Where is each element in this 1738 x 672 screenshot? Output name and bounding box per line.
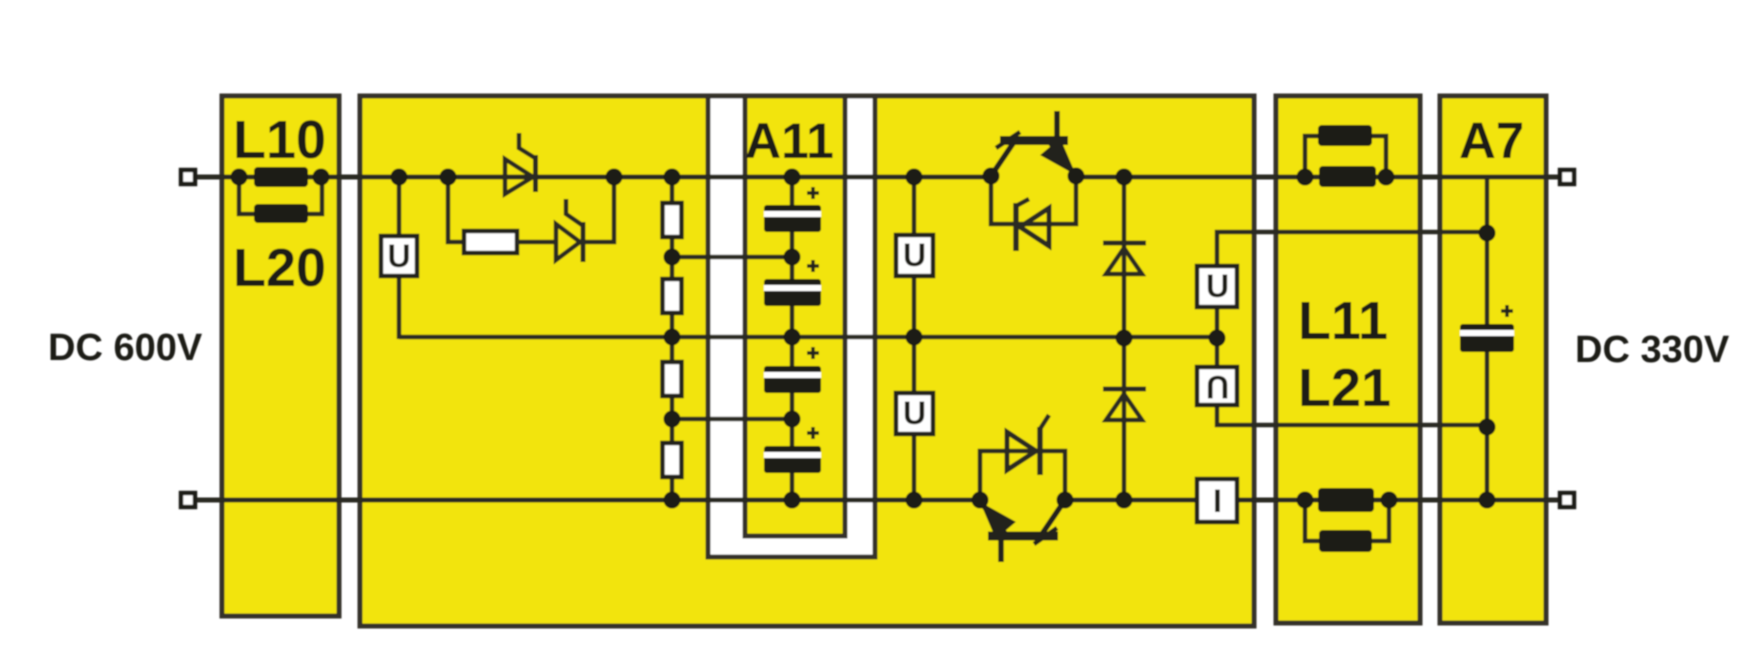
svg-text:DC 600V: DC 600V [48,327,203,369]
node A7 upper tap [1479,225,1496,242]
svg-text:I: I [1213,483,1222,519]
wire snubber branch right [583,177,614,242]
block L11/L21 output filter module [1276,96,1420,623]
node L10 right [313,169,330,186]
node divider bottom [664,492,681,509]
module A11 capacitor bank [745,96,845,536]
diode D2 freewheel lower [1007,415,1049,475]
current sensor I [1197,479,1237,522]
svg-text:L21: L21 [1298,358,1391,418]
voltage sensor U (input) [381,236,417,276]
svg-text:A7: A7 [1459,112,1524,169]
thyristor V2 in snubber branch [556,199,583,262]
node L11 left [1297,169,1314,186]
svg-text:L10: L10 [233,110,326,170]
svg-text:U: U [387,238,410,274]
capacitor C1 [764,187,821,232]
svg-text:L20: L20 [233,238,326,298]
wire row C midpoint bus [399,335,1217,340]
svg-text:L11: L11 [1298,291,1388,351]
wire top rail DC+ (left of IGBT gap) [196,175,991,180]
svg-text:U: U [903,395,926,431]
node L21 right [1381,492,1398,509]
inductor L11 rail bar [1319,166,1376,187]
transistor Q2 (lower GTO) [980,500,1065,562]
wire sense line lower to A7 [1217,402,1487,425]
terminal DC600V + [181,170,195,184]
wire voltage sensor drop [397,177,402,236]
node cap chain row D [784,411,801,428]
voltage sensor U upper half [896,235,933,276]
wire freewheel loop upper [991,176,1076,224]
inductor L21 lower bar [1319,530,1372,552]
terminal DC330V - [1560,493,1574,507]
node L10 left [231,169,248,186]
diode D3 clamp upper [1103,243,1146,274]
capacitor C3 [764,347,821,393]
resistor R4 [663,443,682,477]
wire sense line upper to A7 [1217,232,1487,266]
node L21 left [1297,492,1314,509]
node cap chain row B [784,249,801,266]
wire resistor to thyristor V2 [517,240,556,245]
wire divider chain [670,177,675,500]
node clamp bottom [1116,492,1133,509]
node rail at sensor tap [391,169,408,186]
inductor L20 [254,204,308,223]
wire bottom rail DC- (left of IGBT gap) [196,498,980,503]
resistor R1 [663,203,682,237]
wire L20 parallel loop [239,177,254,214]
node sensor column top [906,169,923,186]
wire lower inductor loop [1305,500,1319,541]
node L11 right [1378,169,1395,186]
node rail snubber right [606,169,623,186]
wire left sensor column [912,177,917,235]
node divider row D [664,411,681,428]
transistor Q1 (upper GTO) [991,111,1076,176]
wire right sensor column [1215,307,1220,367]
terminal DC330V + [1560,170,1574,184]
capacitor C4 [764,427,821,473]
wire clamp diode column [1122,177,1127,500]
node cap chain top [784,169,801,186]
svg-text:U: U [903,237,926,273]
wire bottom rail DC- (right of IGBT gap) [1065,498,1559,503]
node Q1 left [983,168,1000,185]
wire upper inductor loop [1305,136,1318,177]
node Q2 left [972,492,989,509]
diode D4 clamp lower [1103,389,1146,420]
wire capacitor chain [790,177,795,500]
block L10/L20 input filter module [222,96,339,616]
terminal DC600V - [181,493,195,507]
wire freewheel loop lower [980,451,1065,500]
node right sensor mid [1209,330,1226,347]
voltage sensor U lower half [896,393,933,434]
diode D1 freewheel upper [1016,199,1049,251]
node rail snubber left [440,169,457,186]
inductor L10 [254,167,308,187]
capacitor C5 output [1460,305,1514,352]
block main converter (chopper) module [360,96,1254,626]
svg-text:U: U [1206,268,1229,304]
node Q1 right [1068,168,1085,185]
node A7 bottom [1479,492,1496,509]
svg-text:A11: A11 [745,113,834,169]
node clamp mid [1116,330,1133,347]
inductor L21 rail bar [1318,488,1374,512]
wire A7 branch [1485,177,1490,500]
node A7 lower tap [1479,419,1496,436]
node cap chain row C [784,329,801,346]
node divider top [664,169,681,186]
svg-text:U: U [1206,369,1229,405]
inductor L11 upper bar [1318,125,1372,146]
node clamp top [1116,169,1133,186]
resistor R3 [663,362,682,396]
node cap chain bottom [784,492,801,509]
white inset frame around A11 [708,96,875,557]
capacitor C2 [764,260,821,306]
voltage sensor U output lower (inverted) [1197,367,1237,405]
wire snubber branch left [448,177,464,242]
thyristor V1 on top rail [505,133,536,194]
node divider row B [664,249,681,266]
voltage sensor U output upper [1197,266,1237,307]
node sensor column bottom [906,492,923,509]
wire top rail DC+ (right of IGBT gap) [1076,175,1559,180]
block A7 output capacitor module [1440,96,1546,623]
wire row B divider tap to capacitor bank [672,255,792,260]
node sensor column mid [906,329,923,346]
resistor R2 [663,279,682,313]
wire row D divider tap to capacitor bank [672,417,792,422]
node Q2 right [1057,492,1074,509]
node divider row C [664,329,681,346]
resistor R snubber [464,231,517,253]
svg-text:DC 330V: DC 330V [1575,329,1730,371]
